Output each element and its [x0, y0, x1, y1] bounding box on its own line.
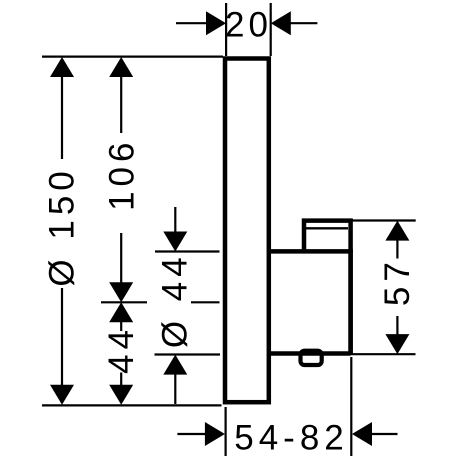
dim Ø44: upper tail	[174, 207, 176, 233]
dim Ø44: lower tail	[174, 374, 176, 404]
dim 54-82: left arrowhead	[205, 422, 225, 446]
dim 57: top up arrowhead	[385, 221, 409, 241]
svg-text:20: 20	[225, 5, 272, 44]
dim 106: upper tail	[120, 76, 122, 133]
dim 20: left extension line	[225, 3, 227, 56]
bottom extension line (plate bottom)	[42, 404, 222, 406]
dim Ø44: lower up arrowhead	[163, 355, 187, 375]
dim Ø150: top up arrowhead	[50, 57, 74, 77]
dim 54-82: right extension line	[350, 357, 352, 456]
plate (Ø150 escutcheon, side view)	[225, 59, 269, 403]
dim 57: top extension line	[351, 219, 416, 221]
dim 44 left: boundary tick left segment	[101, 301, 147, 303]
dim 106: top up arrowhead	[109, 57, 133, 77]
svg-text:106: 106	[102, 137, 141, 210]
svg-text:Ø 44: Ø 44	[156, 252, 195, 348]
dim Ø44: lower extension line	[155, 353, 221, 355]
dim 44 left: upper tail	[120, 321, 122, 331]
dim 44 left: lower tail	[120, 373, 122, 387]
dim 54-82: right arrowhead	[352, 422, 372, 446]
dim 106: lower tail	[120, 233, 122, 283]
dim Ø150: lower tail	[61, 288, 63, 386]
dim 20: right tail	[290, 22, 317, 24]
bottom tab	[301, 351, 322, 365]
svg-text:44: 44	[102, 325, 141, 374]
dim 44 left: top up arrowhead (bowtie with 106)	[109, 302, 133, 322]
handle body bottom edge	[268, 351, 351, 356]
dim 57: upper tail	[396, 240, 398, 259]
handle paddle (top step)	[304, 221, 351, 253]
dim 54-82: right tail	[372, 433, 398, 435]
dim Ø44: upper extension line	[155, 250, 220, 252]
svg-text:Ø 150: Ø 150	[43, 166, 82, 286]
dim 57: bottom down arrowhead	[385, 334, 409, 354]
dim 54-82: left tail	[177, 433, 205, 435]
svg-text:57: 57	[378, 257, 417, 306]
dim 44 left: boundary tick right segment	[191, 301, 220, 303]
dim 20: left arrowhead	[206, 11, 226, 35]
handle body right edge	[348, 249, 353, 353]
top extension line (plate top)	[42, 55, 223, 57]
svg-text:54-82: 54-82	[234, 418, 349, 457]
paddle lip line	[306, 227, 348, 229]
dim Ø150: upper tail	[61, 76, 63, 159]
dim 20: left tail	[176, 22, 207, 24]
dim 20: right extension line	[270, 3, 272, 56]
dim 57: lower tail	[396, 316, 398, 335]
dim 20: right arrowhead	[271, 11, 291, 35]
dim 54-82: left extension line	[225, 407, 227, 456]
dim Ø44: upper down arrowhead	[163, 232, 187, 252]
dim Ø150: bottom down arrowhead	[50, 385, 74, 405]
dim 44 left: bottom down arrowhead	[109, 385, 133, 405]
dim 57: bottom extension line	[348, 353, 416, 355]
handle body top edge	[268, 249, 351, 254]
dim 106: bottom down arrowhead	[109, 282, 133, 302]
